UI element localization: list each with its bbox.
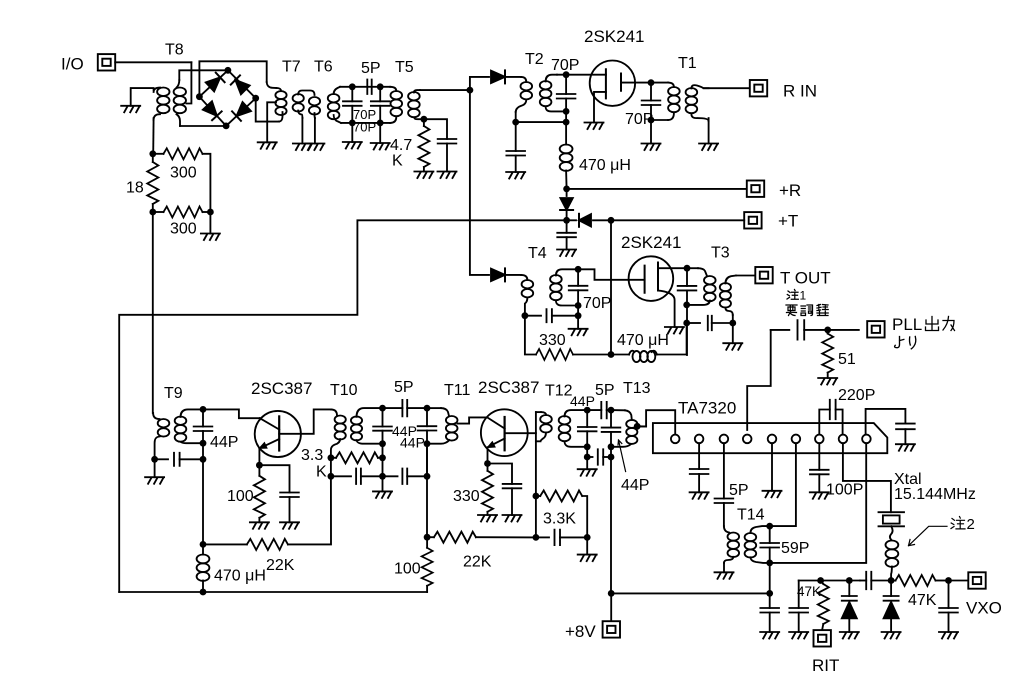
svg-text:59P: 59P (781, 540, 809, 557)
wire T10 lower row left (330, 458, 332, 477)
junction lower row left (328, 473, 335, 480)
wire +T line left leg (119, 220, 566, 592)
transformer T2 primary (521, 82, 533, 99)
resistor 300 lower (153, 211, 164, 213)
capacitor T2 primary bypass (515, 122, 517, 151)
wire cap to varactor2 (871, 580, 891, 582)
junction T5 secondary bottom (421, 116, 428, 123)
capacitor PLL coupling (771, 329, 790, 331)
ground +T bypass (557, 250, 576, 257)
svg-text:44P: 44P (210, 434, 238, 451)
svg-text:2: 2 (967, 516, 975, 533)
svg-text:RIT: RIT (812, 656, 839, 675)
IC pin 9 (862, 435, 871, 444)
resistor 47K VXO (891, 580, 895, 582)
svg-text:T12: T12 (545, 383, 573, 400)
junction cap row left (533, 534, 540, 541)
junction divider bottom right (207, 209, 214, 216)
svg-text:47K: 47K (797, 584, 821, 599)
svg-text:22K: 22K (463, 554, 492, 571)
wire T2 primary bottom (515, 112, 517, 122)
transformer T1 secondary (686, 88, 698, 113)
wire T12 riser to cap row (535, 496, 537, 537)
capacitor 44P T10a (382, 408, 384, 426)
svg-text:44P: 44P (570, 393, 595, 409)
capacitor 44P T10b (426, 408, 428, 426)
wire divider down to T9 (152, 212, 154, 413)
svg-text:T3: T3 (711, 245, 730, 262)
junction T5 output node (467, 87, 474, 94)
wire T9 primary ground (154, 459, 156, 477)
wire pin6 to T14 (770, 443, 796, 526)
terminal I/O (98, 54, 115, 70)
svg-text:T6: T6 (314, 59, 333, 76)
ground T8 primary (121, 106, 140, 113)
junction T12 bottom (584, 443, 591, 450)
svg-text:2SC387: 2SC387 (251, 379, 312, 398)
inductor VXO coil (886, 541, 899, 567)
junction T11 top (424, 405, 431, 412)
svg-text:44P: 44P (621, 477, 649, 494)
diode bridge outline (199, 70, 255, 126)
wire T6 primary bottom to ground (314, 118, 316, 144)
svg-text:K: K (392, 153, 403, 170)
svg-text:100: 100 (227, 488, 254, 505)
inductor 470uH third (202, 544, 204, 554)
ground 70P T1 (642, 144, 661, 151)
svg-text:T7: T7 (282, 59, 301, 76)
capacitor FET tx output (686, 268, 688, 286)
wire +8V terminal stem (610, 593, 612, 620)
wire T5 secondary top to node (420, 89, 470, 91)
junction T2 secondary bottom (563, 108, 570, 115)
resistor 51 (827, 330, 829, 334)
terminal RIT (814, 630, 831, 646)
wire T3 to T OUT (736, 275, 755, 277)
terminal VXO (968, 572, 985, 588)
wire +T down to 470uH (610, 220, 612, 354)
terminal +8V (603, 621, 620, 637)
svg-text:15.144MHz: 15.144MHz (894, 486, 976, 503)
svg-text:300: 300 (170, 165, 197, 182)
svg-text:70P: 70P (583, 295, 611, 312)
svg-text:T8: T8 (165, 42, 184, 59)
wire pin7 to 100P (818, 443, 820, 470)
capacitor bus bypass (798, 581, 800, 609)
wire pin5 ground (771, 443, 773, 491)
ground 330 Q2 (478, 515, 497, 522)
wire bridge right corner to T7 primary bottom (256, 98, 279, 121)
svg-text:1: 1 (800, 289, 807, 303)
wire Q2 collector (505, 432, 536, 434)
resistor 100 second (426, 537, 428, 548)
svg-text:47K: 47K (908, 592, 937, 609)
resistor 22K second (427, 536, 434, 538)
junction cap row right (584, 534, 591, 541)
ground FET tx source (665, 327, 684, 334)
junction +R node (563, 186, 570, 193)
capacitor T4 input (525, 315, 541, 317)
ground pin9 capacitor (896, 444, 915, 451)
capacitor Q1 emitter (259, 465, 289, 492)
junction T11 bottom (424, 440, 431, 447)
ground pin5 (763, 491, 782, 498)
svg-text:TA7320: TA7320 (678, 399, 736, 418)
junction 3.3K left (328, 454, 335, 461)
junction filter top left (349, 83, 356, 90)
capacitor 5P T14 (715, 499, 734, 504)
transformer T3 primary (687, 267, 698, 269)
junction T12 lower (584, 454, 591, 461)
resistor 3.3K T12 (536, 495, 540, 497)
wire 220P to pin8 (836, 410, 843, 435)
coil T11 (427, 407, 441, 409)
wire lower row ground (382, 458, 384, 492)
junction T4 primary bottom (522, 312, 529, 319)
wire T11 chain down (426, 444, 428, 538)
svg-text:T1: T1 (678, 55, 697, 72)
junction lower row right (424, 473, 431, 480)
wire pin8 to crystal (843, 443, 891, 512)
inductor 470uH rx (565, 122, 567, 144)
junction 22K second left (424, 534, 431, 541)
wire VXO bus (799, 580, 860, 582)
wire crystal to coil (890, 526, 893, 540)
wire T8 primary bottom (152, 118, 154, 154)
IC pin 5 (768, 435, 777, 444)
wire I/O to T8 (115, 61, 191, 63)
capacitor VXO bypass (948, 581, 950, 609)
wire T2 bottom rail (516, 121, 566, 123)
wire cap row ground (586, 537, 588, 554)
wire bridge left corner to T7 primary top (199, 61, 266, 96)
wire 59P node down to rail (769, 563, 771, 594)
capacitor pin9 (896, 424, 915, 430)
transformer T6 secondary (334, 87, 340, 94)
wire to VXO terminal (949, 580, 969, 582)
crystal X1 (879, 512, 905, 526)
coil T13 (611, 409, 625, 411)
wire pin2 capacitor (698, 443, 700, 469)
junction +8V node (608, 590, 615, 597)
resistor 3.3K T10 (331, 457, 336, 459)
ground T12 lower (578, 469, 597, 476)
svg-text:5P: 5P (729, 482, 749, 499)
ground T14 (715, 572, 734, 579)
transformer T12 primary (536, 411, 541, 413)
junction T13 lower (608, 454, 615, 461)
svg-text:T13: T13 (623, 380, 651, 397)
IC pin 7 (815, 435, 824, 444)
junction 70P gate (563, 71, 570, 78)
wire T8 primary top to ground (131, 88, 154, 106)
junction FET rx drain (648, 79, 655, 86)
junction Q2 emitter (484, 460, 491, 467)
junction T9 top (200, 406, 207, 413)
wire T8 secondary top to bridge top (179, 70, 228, 80)
junction 3.3K right (379, 454, 386, 461)
svg-text:44P: 44P (400, 435, 425, 451)
label note1 (787, 289, 807, 303)
junction filter bottom right (377, 120, 384, 127)
svg-text:100P: 100P (826, 482, 863, 499)
ground cap row (578, 555, 597, 562)
junction +T node (563, 217, 570, 224)
ground varactor D1 (840, 632, 859, 639)
diode to T2 (470, 77, 489, 90)
wire T3 ground (732, 323, 734, 343)
transistor Q1 2SC387 (255, 411, 301, 457)
capacitor 59P (769, 526, 771, 543)
capacitor T9 coupling (155, 458, 168, 460)
svg-text:51: 51 (838, 351, 856, 368)
ground T3 (723, 343, 742, 350)
wire T9 chain down (202, 459, 204, 544)
junction Q1 emitter (256, 462, 263, 469)
wire +R line (567, 188, 747, 190)
ground Q2 emitter cap (503, 515, 522, 522)
junction VXO node (945, 577, 952, 584)
junction divider top (149, 150, 156, 157)
inductor 470uH tx (611, 354, 629, 356)
transformer T2 secondary (540, 81, 552, 106)
junction 330 to +T (608, 351, 615, 358)
junction T13 top (608, 407, 615, 414)
ground VXO bypass (939, 632, 958, 639)
transformer T9 primary (153, 413, 159, 419)
junction T9 bottom (200, 440, 207, 447)
junction bus varactor1 (846, 577, 853, 584)
capacitor lower right (383, 475, 398, 477)
wire +8V rail (611, 592, 770, 594)
junction bus 47K (817, 577, 824, 584)
svg-text:2SK241: 2SK241 (621, 233, 682, 252)
wire bottom rail (119, 591, 427, 593)
IC TA7320 body (653, 423, 887, 453)
wire T12 lower ground (586, 457, 588, 469)
terminal PLL (867, 321, 884, 337)
capacitor 70P upper (351, 87, 353, 102)
ground filter left (343, 142, 362, 149)
capacitor T12 lower coupling (587, 456, 592, 458)
capacitor lower left (331, 475, 351, 477)
wire T1 to R IN (704, 87, 750, 89)
capacitor 70P T4 (577, 269, 579, 286)
wire +T line right (611, 219, 744, 221)
svg-text:T OUT: T OUT (780, 269, 831, 288)
transformer T6 primary (309, 97, 320, 115)
varactor D2 (890, 581, 892, 597)
bridge diode D1 (206, 73, 225, 92)
capacitor 70P T1 (650, 83, 652, 101)
junction rail 470uH (200, 589, 207, 596)
transformer T14 primary (728, 533, 740, 558)
wire pin7 to 220P (819, 410, 830, 435)
varactor D1 (848, 581, 850, 597)
junction T3 primary bottom node (683, 302, 690, 309)
wire T5 node down to T4 (470, 90, 489, 275)
capacitor 5P (367, 80, 371, 94)
svg-text:+8V: +8V (565, 622, 596, 641)
junction T13 tap (634, 423, 641, 430)
ground capacitor T5 (438, 172, 457, 179)
junction bus varactor2 (888, 577, 895, 584)
wire T1 secondary ground (708, 118, 710, 143)
ground 51 (818, 378, 837, 385)
ground T2 primary bypass (506, 172, 525, 179)
ground Q1 emitter cap (280, 522, 299, 529)
junction 70P T1 bottom (648, 117, 655, 124)
ground rail bypass (760, 632, 779, 639)
junction +T to osc (608, 217, 615, 224)
junction filter bottom left (349, 120, 356, 127)
svg-text:5P: 5P (361, 60, 381, 77)
transformer T3 secondary (720, 283, 731, 308)
ground T9 (145, 477, 164, 484)
transformer T10 primary (335, 416, 346, 440)
terminal +R (747, 181, 764, 197)
label 44P T13 pointer (618, 440, 626, 472)
capacitor rail bypass (769, 593, 771, 608)
transformer T9 secondary (175, 417, 187, 442)
capacitor bus coupling (860, 580, 866, 582)
junction T10 top (379, 405, 386, 412)
svg-text:+R: +R (779, 181, 801, 200)
wire T14 primary ground (723, 563, 725, 572)
wire pin9 to top capacitor (866, 409, 906, 435)
wire T8 secondary bottom to bridge bottom (180, 125, 226, 127)
svg-text:3.3K: 3.3K (543, 511, 576, 528)
wire filter left ground (351, 123, 353, 142)
svg-text:3.3: 3.3 (301, 447, 323, 464)
label note2 pointer (909, 526, 948, 545)
svg-text:4.7: 4.7 (390, 137, 412, 154)
IC pin 3 (720, 435, 729, 444)
junction filter top right (377, 83, 384, 90)
label required-adjust (786, 305, 828, 316)
junction bridge bottom (223, 123, 230, 130)
junction divider bottom left (149, 209, 156, 216)
wire T7 centertap to ground (267, 102, 276, 142)
junction bridge left (196, 93, 203, 100)
capacitor 44P T9 (202, 409, 204, 426)
svg-text:330: 330 (539, 332, 566, 349)
resistor 300 upper (153, 153, 164, 155)
diode to T4 (491, 268, 505, 281)
junction T14 bottom (766, 560, 773, 567)
transformer T4 primary (522, 280, 534, 297)
terminal R IN (750, 80, 767, 96)
svg-text:5P: 5P (394, 379, 414, 396)
junction T9 primary bottom (151, 456, 158, 463)
ground 4.7K (414, 172, 433, 179)
svg-text:470 μH: 470 μH (579, 157, 631, 174)
svg-text:T5: T5 (395, 59, 414, 76)
ground lower row (373, 491, 392, 498)
svg-text:T2: T2 (525, 51, 544, 68)
transformer T10 secondary (351, 416, 362, 440)
transformer T8 primary (154, 88, 160, 92)
junction 3.3K T12 left (533, 493, 540, 500)
svg-text:T10: T10 (330, 382, 358, 399)
FET 2SK241 tx (629, 256, 674, 301)
resistor 330 T4 (525, 316, 536, 355)
resistor 100 Q1 (258, 465, 260, 476)
junction bridge top (225, 67, 232, 74)
diode +R to +T (566, 189, 568, 196)
ground 300 lower (201, 234, 220, 241)
svg-text:70P: 70P (353, 120, 376, 135)
junction T4 secondary top (575, 266, 582, 273)
svg-text:330: 330 (453, 488, 480, 505)
wire 300 lower to ground (209, 212, 211, 234)
transformer T14 secondary (750, 526, 769, 533)
terminal T OUT (755, 267, 772, 283)
junction T10 bottom (379, 440, 386, 447)
junction FET tx drain (684, 265, 691, 272)
svg-text:22K: 22K (266, 557, 295, 574)
wire T9 to Q1 base (203, 409, 260, 418)
wire pin1 to T13 (641, 410, 676, 434)
wire Q1 collector to T10 (279, 409, 331, 433)
capacitor 70P lower (379, 87, 381, 102)
IC pin 8 (839, 435, 848, 444)
svg-text:I/O: I/O (61, 55, 84, 74)
wire IF filter top (340, 86, 390, 88)
svg-text:470 μH: 470 μH (617, 332, 669, 349)
transformer T8 secondary (174, 88, 186, 114)
wire pin3 to 5P (723, 443, 725, 498)
IC pin 6 (792, 435, 801, 444)
resistor 330 Q2 (487, 464, 489, 471)
svg-text:300: 300 (170, 221, 197, 238)
svg-text:R IN: R IN (783, 82, 817, 101)
transformer T5 secondary (408, 92, 420, 117)
junction T12 top (584, 407, 591, 414)
svg-text:470 μH: 470 μH (214, 568, 266, 585)
ground T6 primary (305, 144, 324, 151)
ground T7 secondary (293, 144, 312, 151)
wire T4 ground (577, 316, 579, 329)
resistor 47K RIT (818, 584, 829, 624)
terminal +T (744, 212, 761, 228)
transformer T4 secondary (550, 275, 562, 300)
junction T3 secondary ground node (729, 320, 736, 327)
svg-text:T4: T4 (528, 245, 547, 262)
svg-text:70P: 70P (551, 57, 579, 74)
capacitor T3 bottom (687, 322, 700, 324)
transformer T5 primary (390, 87, 396, 91)
transformer T1 primary (651, 82, 668, 84)
junction lower row mid (379, 473, 386, 480)
svg-text:T11: T11 (444, 382, 470, 399)
wire T12 primary feedback riser (535, 412, 537, 496)
resistor 4.7K (423, 119, 425, 126)
wire filter right ground (379, 123, 381, 143)
svg-text:18: 18 (126, 180, 144, 197)
svg-text:T9: T9 (164, 385, 183, 402)
svg-text:+T: +T (778, 212, 798, 231)
wire T2 secondary top to gate (557, 74, 606, 76)
svg-text:220P: 220P (838, 387, 875, 404)
IC pin 4 (743, 435, 752, 444)
ground 100 Q1 (250, 522, 269, 529)
capacitor 3.3K bypass (536, 536, 549, 538)
FET 2SK241 rx (590, 60, 635, 105)
capacitor 70P T2 (565, 75, 567, 94)
junction bridge right (252, 95, 259, 102)
junction T9 cap lower (200, 456, 207, 463)
